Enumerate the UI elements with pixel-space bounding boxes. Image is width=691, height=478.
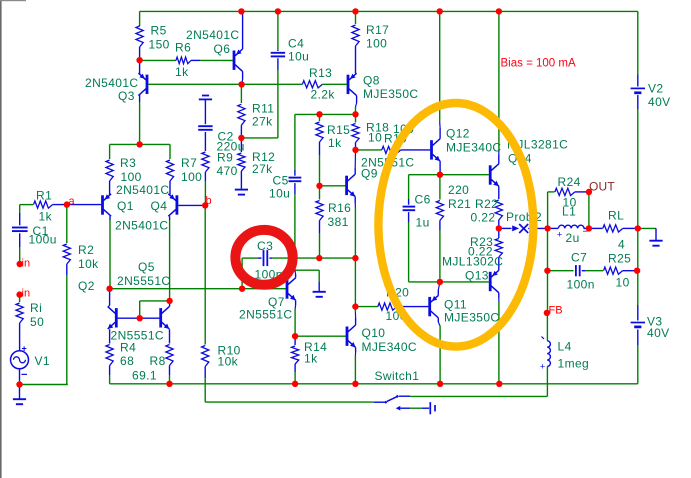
svg-text:V1: V1 xyxy=(35,354,50,368)
svg-text:R4: R4 xyxy=(120,341,136,355)
svg-text:Switch1: Switch1 xyxy=(375,369,420,383)
svg-text:R8: R8 xyxy=(150,354,166,368)
svg-text:0.22: 0.22 xyxy=(471,211,496,225)
svg-text:100n: 100n xyxy=(567,278,595,292)
svg-text:2N5401C: 2N5401C xyxy=(116,183,170,197)
svg-text:10: 10 xyxy=(368,131,382,145)
svg-text:2u: 2u xyxy=(566,231,580,245)
svg-text:−: − xyxy=(21,369,27,381)
svg-text:in: in xyxy=(22,288,31,300)
svg-text:L4: L4 xyxy=(558,340,572,354)
svg-text:100: 100 xyxy=(366,37,387,51)
svg-text:2N5551C: 2N5551C xyxy=(239,308,293,322)
svg-text:OUT: OUT xyxy=(589,180,615,194)
svg-text:100u: 100u xyxy=(29,233,57,247)
svg-text:Ri: Ri xyxy=(30,301,42,315)
svg-text:C6: C6 xyxy=(415,193,431,207)
svg-text:R16: R16 xyxy=(328,201,351,215)
svg-text:1k: 1k xyxy=(175,65,189,79)
svg-text:10u: 10u xyxy=(288,50,309,64)
svg-text:R3: R3 xyxy=(120,156,136,170)
svg-text:Q4: Q4 xyxy=(151,199,168,213)
svg-text:40V: 40V xyxy=(648,95,671,109)
svg-text:Bias = 100 mA: Bias = 100 mA xyxy=(501,57,576,69)
svg-text:2.2k: 2.2k xyxy=(311,88,336,102)
svg-text:1u: 1u xyxy=(416,216,430,230)
svg-text:+: + xyxy=(540,362,545,372)
svg-text:+: + xyxy=(557,230,562,240)
svg-text:L1: L1 xyxy=(562,205,576,219)
svg-text:C4: C4 xyxy=(288,37,304,51)
svg-text:27k: 27k xyxy=(252,162,273,176)
svg-text:Q6: Q6 xyxy=(214,42,231,56)
svg-text:4: 4 xyxy=(618,238,625,252)
svg-text:R9: R9 xyxy=(217,151,233,165)
svg-text:100: 100 xyxy=(181,170,202,184)
svg-text:R25: R25 xyxy=(608,252,631,266)
svg-text:1k: 1k xyxy=(39,210,53,224)
svg-text:1k: 1k xyxy=(328,136,342,150)
svg-text:a: a xyxy=(69,196,76,208)
svg-text:Q1: Q1 xyxy=(117,199,134,213)
svg-text:69.1: 69.1 xyxy=(132,369,157,383)
svg-text:Q5: Q5 xyxy=(138,260,155,274)
svg-text:2N5401C: 2N5401C xyxy=(186,28,240,42)
svg-text:Q8: Q8 xyxy=(363,74,380,88)
svg-text:R17: R17 xyxy=(366,23,389,37)
svg-text:150: 150 xyxy=(149,38,170,52)
svg-text:MJE350C: MJE350C xyxy=(444,311,500,325)
svg-text:R13: R13 xyxy=(309,66,332,80)
svg-text:R21: R21 xyxy=(448,197,471,211)
svg-text:R5: R5 xyxy=(151,24,167,38)
svg-text:MJE340C: MJE340C xyxy=(362,340,418,354)
svg-text:Q9: Q9 xyxy=(361,167,378,181)
svg-text:1k: 1k xyxy=(304,352,318,366)
svg-text:220: 220 xyxy=(448,183,469,197)
svg-text:2N5401C: 2N5401C xyxy=(85,76,139,90)
svg-text:C3: C3 xyxy=(257,239,273,253)
svg-text:2N5401C: 2N5401C xyxy=(115,219,169,233)
svg-text:100: 100 xyxy=(121,170,142,184)
svg-text:MJE350C: MJE350C xyxy=(363,87,419,101)
svg-text:R11: R11 xyxy=(252,102,274,116)
svg-text:470: 470 xyxy=(217,164,238,178)
svg-text:1meg: 1meg xyxy=(558,357,590,371)
svg-text:RL: RL xyxy=(608,209,624,223)
svg-text:R7: R7 xyxy=(181,156,197,170)
svg-text:R6: R6 xyxy=(175,41,191,55)
svg-text:Q3: Q3 xyxy=(118,89,135,103)
svg-text:10k: 10k xyxy=(218,355,239,369)
svg-text:68: 68 xyxy=(120,354,134,368)
svg-text:10: 10 xyxy=(616,276,630,290)
svg-text:2N5551C: 2N5551C xyxy=(111,329,165,343)
svg-text:10u: 10u xyxy=(269,187,290,201)
svg-text:Q2: Q2 xyxy=(78,279,95,293)
svg-text:Q12: Q12 xyxy=(446,127,470,141)
svg-text:MJL1302C: MJL1302C xyxy=(442,255,503,269)
svg-text:Q13: Q13 xyxy=(465,269,489,283)
svg-text:10k: 10k xyxy=(78,257,99,271)
svg-text:R15: R15 xyxy=(327,123,350,137)
svg-text:FB: FB xyxy=(549,305,563,317)
svg-text:R1: R1 xyxy=(36,189,52,203)
svg-text:Q11: Q11 xyxy=(444,298,467,312)
svg-text:V2: V2 xyxy=(648,82,663,96)
svg-text:381: 381 xyxy=(328,215,349,229)
svg-text:2N5551C: 2N5551C xyxy=(117,274,171,288)
svg-text:27k: 27k xyxy=(252,115,273,129)
svg-text:R24: R24 xyxy=(558,175,581,189)
svg-text:b: b xyxy=(206,195,212,207)
svg-text:Q10: Q10 xyxy=(362,326,386,340)
svg-text:in: in xyxy=(22,258,31,270)
svg-text:R22: R22 xyxy=(475,197,498,211)
svg-text:R2: R2 xyxy=(78,243,94,257)
svg-text:C5: C5 xyxy=(273,174,289,188)
svg-text:50: 50 xyxy=(30,315,44,329)
svg-text:C7: C7 xyxy=(571,251,587,265)
svg-text:40V: 40V xyxy=(647,326,670,340)
svg-text:MJE340C: MJE340C xyxy=(446,141,502,155)
svg-text:+: + xyxy=(22,343,27,353)
